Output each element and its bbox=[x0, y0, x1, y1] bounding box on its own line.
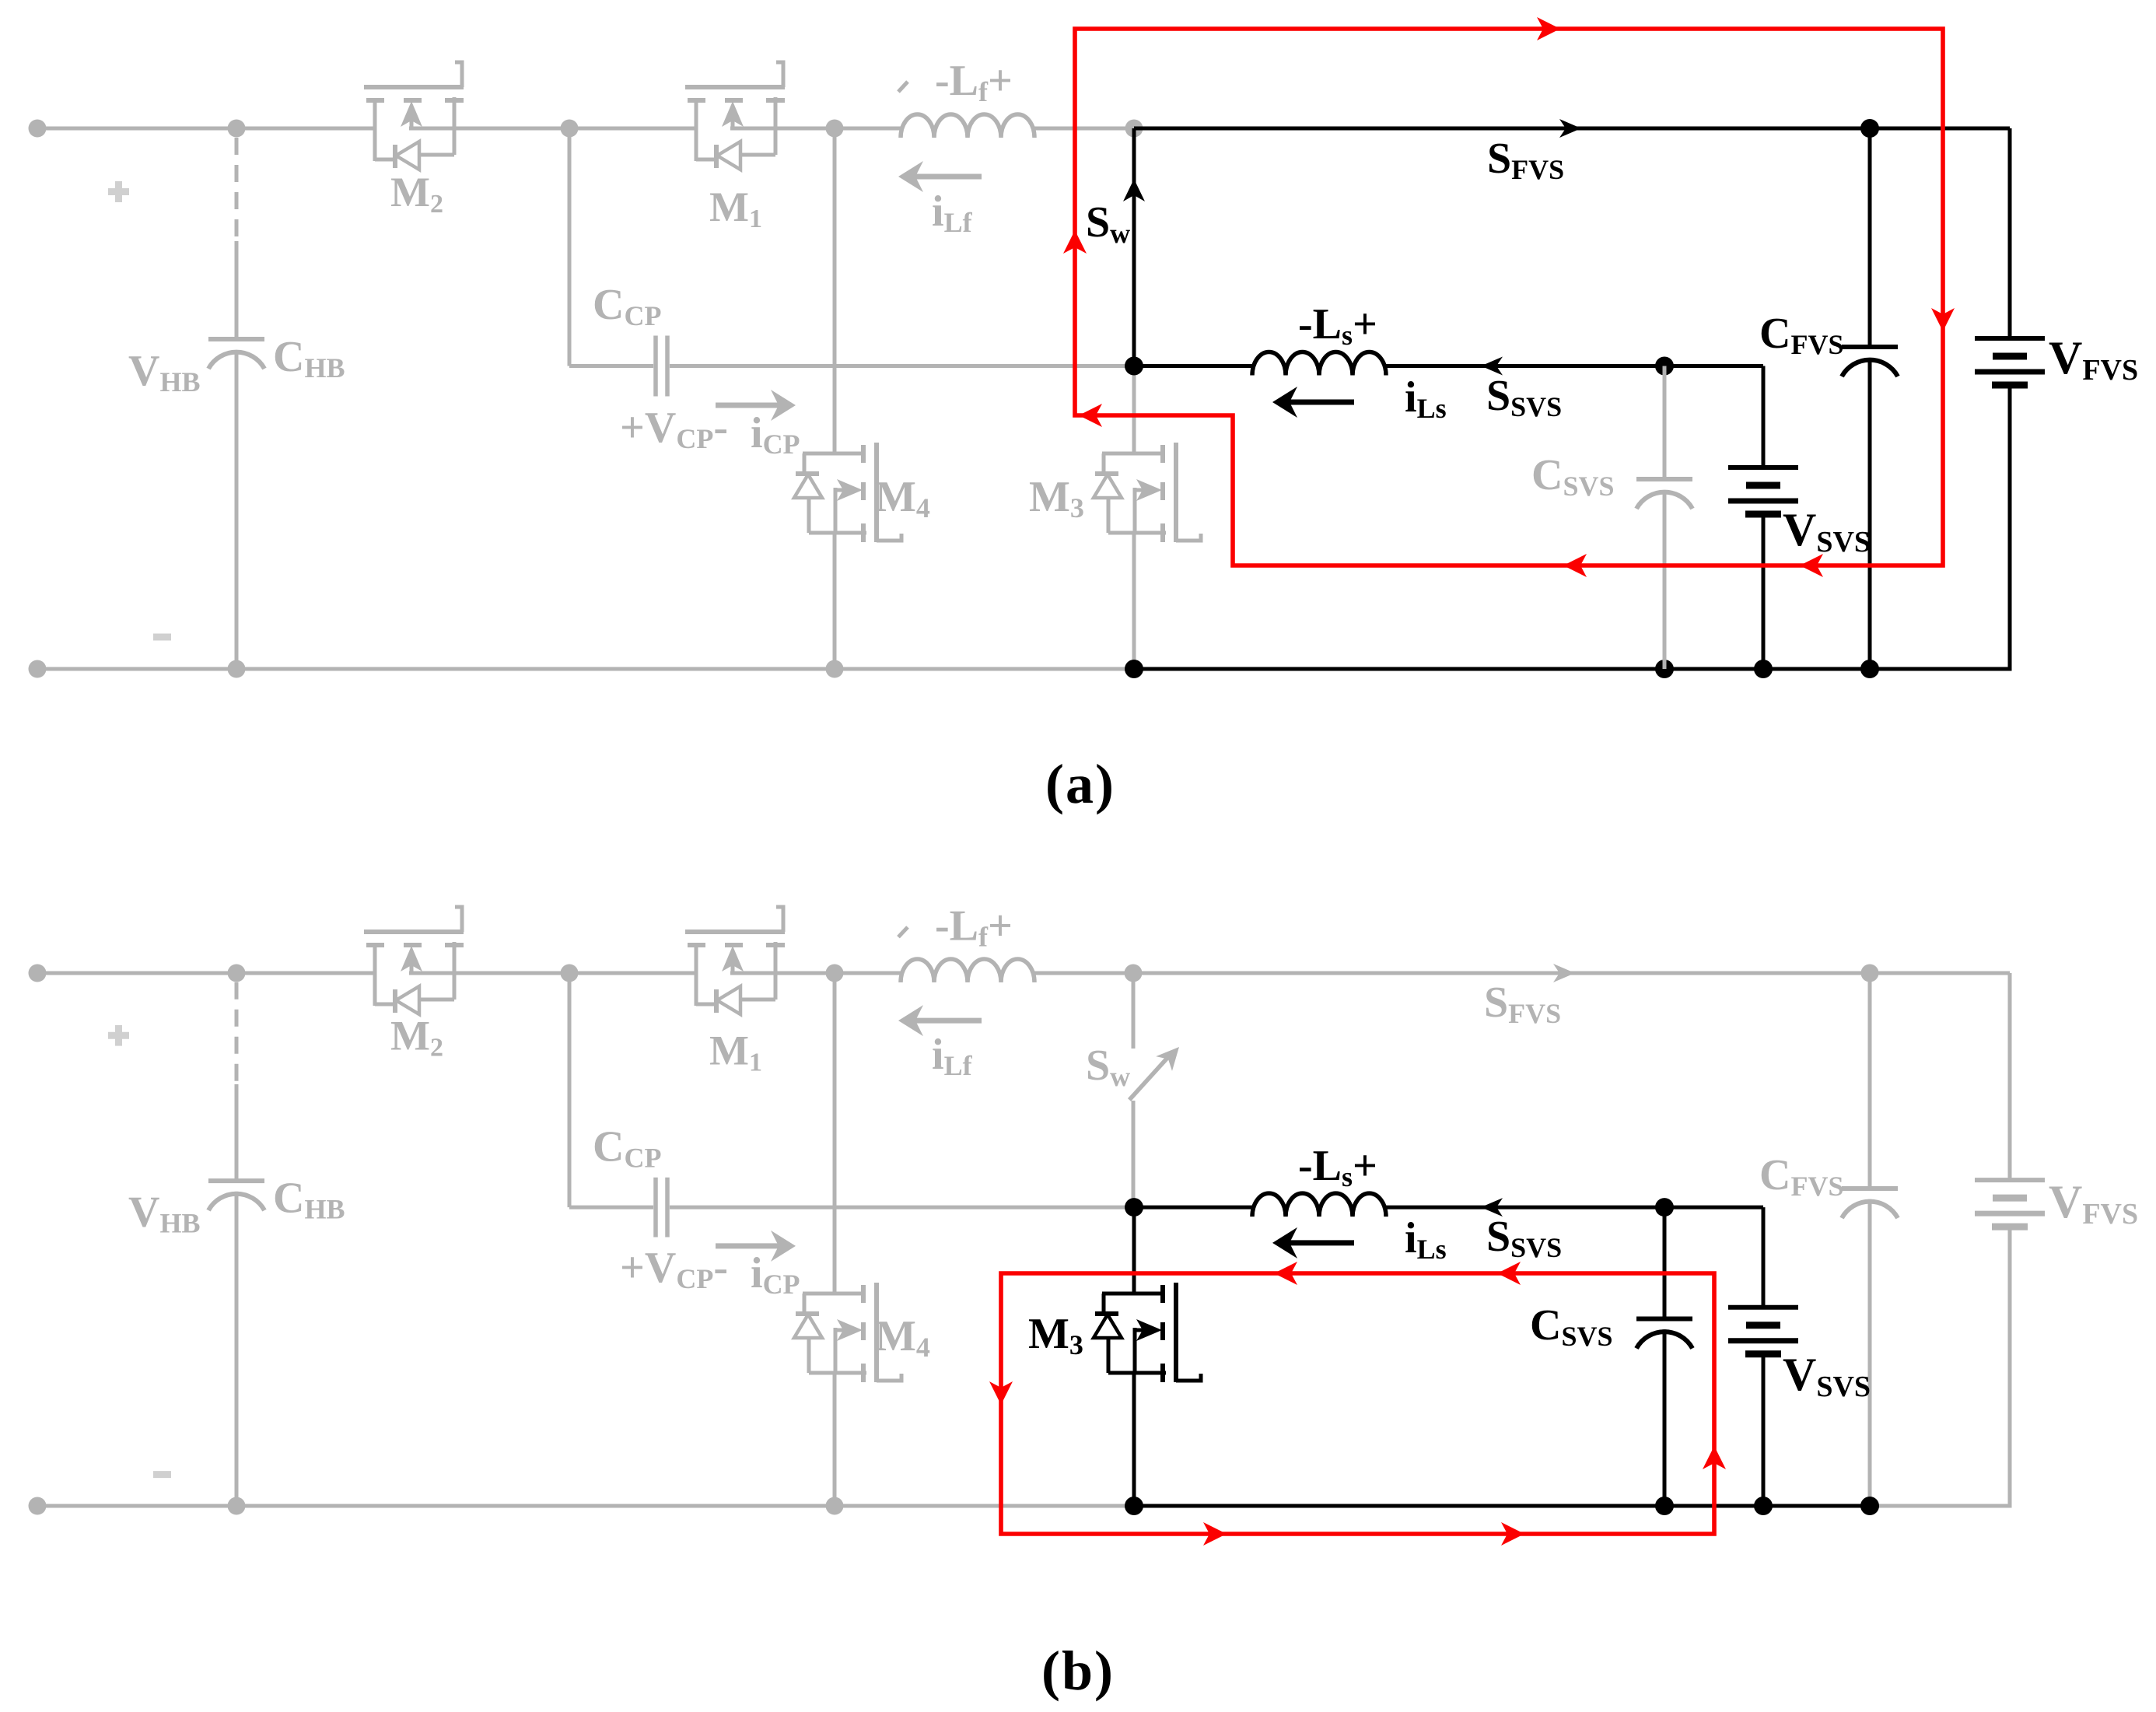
node bottom-left terminal a bbox=[29, 660, 47, 678]
arrow red loop b left bbox=[989, 1381, 1013, 1405]
node C_SVS bottom b bbox=[1655, 1497, 1674, 1515]
wire C_CP vertical b bbox=[568, 973, 572, 1207]
node S_w top b bbox=[1125, 965, 1143, 982]
wire V_FVS top lead a bbox=[2008, 128, 2012, 338]
wire C_SVS bottom lead a gray bbox=[1663, 490, 1667, 669]
capacitor C_FVS b bbox=[1842, 1189, 1898, 1218]
wire bottom rail black b bbox=[1134, 1504, 1870, 1508]
wire C_CP left lead b bbox=[569, 1206, 653, 1210]
node C_FVS top b bbox=[1861, 965, 1879, 982]
wire C_FVS top lead b bbox=[1868, 973, 1872, 1189]
node C_HB bottom b bbox=[228, 1497, 246, 1515]
wire middle rail black a seg1 bbox=[1134, 364, 1252, 368]
battery V_SVS a bbox=[1728, 467, 1798, 514]
node C_HB top b bbox=[228, 965, 246, 982]
inductor Lf b bbox=[901, 959, 1034, 982]
transistor M3 b bbox=[1094, 1283, 1201, 1382]
node M1/M4 column a bbox=[826, 120, 844, 138]
wire C_FVS top lead a bbox=[1868, 128, 1872, 347]
wire C_CP vertical a bbox=[568, 128, 572, 366]
wire middle rail black a seg2 bbox=[1386, 364, 1664, 368]
arrow red loop a inner bbox=[1079, 404, 1102, 427]
arrow red loop a left bbox=[1063, 230, 1087, 254]
wire V_FVS bottom lead a bbox=[2008, 385, 2012, 669]
current arrow i_Ls b bbox=[1288, 1240, 1354, 1245]
transistor M1 b bbox=[685, 907, 785, 1014]
wire bottom rail black a bbox=[1134, 667, 2012, 671]
node Sw bottom rail a bbox=[1125, 660, 1143, 678]
wire M4 source b bbox=[833, 1372, 837, 1507]
svg-text:-Ls+: -Ls+ bbox=[1298, 300, 1377, 351]
current arrow i_Lf a bbox=[914, 174, 982, 180]
node C_HB bottom a bbox=[228, 660, 246, 678]
stray mark near -Lf+ a bbox=[898, 82, 908, 92]
label - (V_HB polarity) a bbox=[153, 634, 171, 641]
wire red current loop a bbox=[1075, 29, 1943, 565]
wire C_SVS top lead a gray bbox=[1663, 366, 1667, 480]
transistor M4 b bbox=[794, 1283, 901, 1382]
wire top rail b seg3 bbox=[775, 972, 901, 975]
wire V_SVS bottom lead b bbox=[1762, 1354, 1766, 1506]
transistor M1 a bbox=[685, 62, 785, 170]
wire V_HB dashed lead b bbox=[235, 982, 239, 1086]
capacitor C_SVS a bbox=[1636, 479, 1692, 509]
node C_SVS top b bbox=[1655, 1198, 1674, 1217]
wire V_HB dashed lead a bbox=[235, 138, 239, 243]
capacitor C_CP a bbox=[656, 336, 667, 397]
arrow red loop b bottom2 bbox=[1501, 1522, 1524, 1546]
wire top rail a seg2 bbox=[454, 127, 696, 131]
node V_SVS bottom a bbox=[1754, 660, 1773, 678]
current arrow i_CP b bbox=[716, 1243, 779, 1248]
svg-text:-Ls+: -Ls+ bbox=[1298, 1142, 1377, 1192]
wire bottom rail b gray left bbox=[37, 1504, 1134, 1508]
arrow red loop b top1 bbox=[1274, 1262, 1297, 1285]
node C_SVS top a bbox=[1655, 357, 1674, 376]
arrow S_SVS b bbox=[1481, 1198, 1503, 1217]
wire Sw upper lead b bbox=[1132, 973, 1136, 1049]
wire bottom rail a gray bbox=[37, 667, 1136, 671]
node C_FVS bottom a bbox=[1860, 660, 1879, 678]
node M1/M4 column b bbox=[826, 965, 844, 982]
node V_SVS bottom b bbox=[1754, 1497, 1773, 1515]
node C_SVS bottom a bbox=[1655, 660, 1674, 678]
svg-text:(a): (a) bbox=[1045, 753, 1115, 815]
wire middle rail gray a bbox=[670, 364, 1132, 368]
current arrow i_Ls a bbox=[1288, 400, 1354, 405]
current arrow i_CP a bbox=[716, 403, 779, 408]
battery V_SVS b bbox=[1728, 1308, 1798, 1354]
wire red current loop b bbox=[1001, 1273, 1714, 1534]
node C_CP branch b bbox=[561, 965, 579, 982]
arrow red loop a bottom1 bbox=[1563, 554, 1587, 577]
capacitor C_CP b bbox=[656, 1178, 667, 1238]
wire M3 drain b bbox=[1132, 1207, 1136, 1294]
node Sw bottom a bbox=[1125, 357, 1143, 376]
wire C_HB bottom lead a bbox=[235, 350, 239, 669]
node bottom-left terminal b bbox=[29, 1497, 47, 1515]
capacitor C_SVS b bbox=[1636, 1319, 1692, 1349]
wire top rail a seg3 bbox=[775, 127, 901, 131]
node top-left terminal a bbox=[29, 120, 47, 138]
wire top rail a seg1 bbox=[37, 127, 375, 131]
arrow Sw current a bbox=[1123, 179, 1145, 201]
wire top rail b seg2 bbox=[454, 972, 696, 975]
wire C_HB top lead a bbox=[235, 241, 239, 339]
arrow S_SVS a bbox=[1481, 357, 1503, 376]
node C_FVS bottom b bbox=[1860, 1497, 1879, 1515]
wire M4 drain a bbox=[833, 128, 837, 453]
wire middle rail gray b bbox=[670, 1206, 1132, 1210]
node M4 bottom b bbox=[826, 1497, 844, 1515]
wire M3 source a bbox=[1132, 533, 1136, 669]
arrow red loop a top bbox=[1537, 17, 1560, 40]
transistor M2 a bbox=[364, 62, 464, 170]
arrow red loop b right bbox=[1703, 1446, 1726, 1469]
svg-text:-Lf+: -Lf+ bbox=[935, 902, 1013, 953]
wire V_SVS bottom lead a bbox=[1762, 514, 1766, 669]
node C_FVS top a bbox=[1860, 119, 1879, 138]
stray mark near -Lf+ b bbox=[898, 927, 908, 937]
wire middle rail black b seg2 bbox=[1386, 1206, 1664, 1210]
wire M4 source a bbox=[833, 533, 837, 669]
wire middle rail black b seg1 bbox=[1134, 1206, 1252, 1210]
wire Sw lower lead b bbox=[1132, 1101, 1136, 1207]
arrow red loop a bottom2 bbox=[1800, 554, 1823, 577]
capacitor C_FVS a bbox=[1842, 347, 1898, 376]
wire top rail b right gray bbox=[1133, 972, 2010, 975]
label - (V_HB polarity) b bbox=[153, 1471, 171, 1478]
wire C_FVS bottom lead a bbox=[1868, 358, 1872, 669]
node C_CP branch a bbox=[561, 120, 579, 138]
node M3 top b bbox=[1125, 1198, 1143, 1217]
battery V_FVS a bbox=[1975, 338, 2045, 385]
wire top rail black a bbox=[1134, 127, 2010, 131]
svg-text:-Lf+: -Lf+ bbox=[935, 57, 1013, 107]
node top-left terminal b bbox=[29, 965, 47, 982]
wire top rail b seg1 bbox=[37, 972, 375, 975]
wire M4 drain b bbox=[833, 973, 837, 1294]
transistor M3 a bbox=[1094, 443, 1201, 542]
wire C_FVS bottom lead b bbox=[1868, 1199, 1872, 1506]
arrow S_FVS b gray bbox=[1553, 964, 1575, 982]
transistor M2 b bbox=[364, 907, 464, 1014]
wire M3 source b bbox=[1132, 1372, 1136, 1507]
wire top rail b seg4 bbox=[1034, 972, 1133, 975]
current arrow i_Lf b bbox=[914, 1018, 982, 1024]
arrow red loop a right bbox=[1931, 308, 1955, 331]
label + (V_HB polarity) b bbox=[108, 1025, 129, 1046]
arrow red loop b bottom1 bbox=[1203, 1522, 1227, 1546]
wire switch Sw closed a bbox=[1132, 128, 1136, 366]
wire V_SVS top lead a bbox=[1762, 366, 1766, 468]
wire C_SVS bottom lead b bbox=[1663, 1329, 1667, 1506]
node S_w top a bbox=[1125, 120, 1143, 138]
svg-text:(b): (b) bbox=[1041, 1640, 1115, 1702]
node M4 bottom a bbox=[826, 660, 844, 678]
capacitor C_HB b bbox=[208, 1181, 264, 1210]
wire M3 drain a bbox=[1132, 366, 1136, 454]
node C_HB top a bbox=[228, 120, 246, 138]
inductor Ls b bbox=[1252, 1193, 1386, 1217]
wire C_HB top lead b bbox=[235, 1084, 239, 1181]
wire C_HB bottom lead b bbox=[235, 1192, 239, 1506]
wire C_CP left lead a bbox=[569, 364, 653, 368]
node M3 bottom b bbox=[1125, 1497, 1143, 1515]
wire V_FVS bottom lead b bbox=[2008, 1227, 2012, 1506]
wire V_SVS top lead b bbox=[1762, 1207, 1766, 1308]
transistor M4 a bbox=[794, 443, 901, 542]
wire V_FVS top lead b bbox=[2008, 973, 2012, 1180]
wire to V_SVS a bbox=[1664, 364, 1763, 368]
arrow S_FVS a bbox=[1559, 119, 1581, 138]
inductor Ls a bbox=[1252, 352, 1386, 376]
wire bottom rail b gray right bbox=[1870, 1504, 2012, 1508]
arrow red loop b top2 bbox=[1497, 1262, 1521, 1285]
inductor Lf a bbox=[901, 114, 1034, 138]
switch Sw open b bbox=[1129, 1058, 1167, 1100]
wire top rail a seg4 bbox=[1034, 127, 1134, 131]
wire C_SVS top lead b bbox=[1663, 1207, 1667, 1318]
label + (V_HB polarity) a bbox=[108, 181, 129, 202]
wire to V_SVS b bbox=[1664, 1206, 1763, 1210]
capacitor C_HB bbox=[208, 339, 264, 369]
battery V_FVS b bbox=[1975, 1180, 2045, 1227]
